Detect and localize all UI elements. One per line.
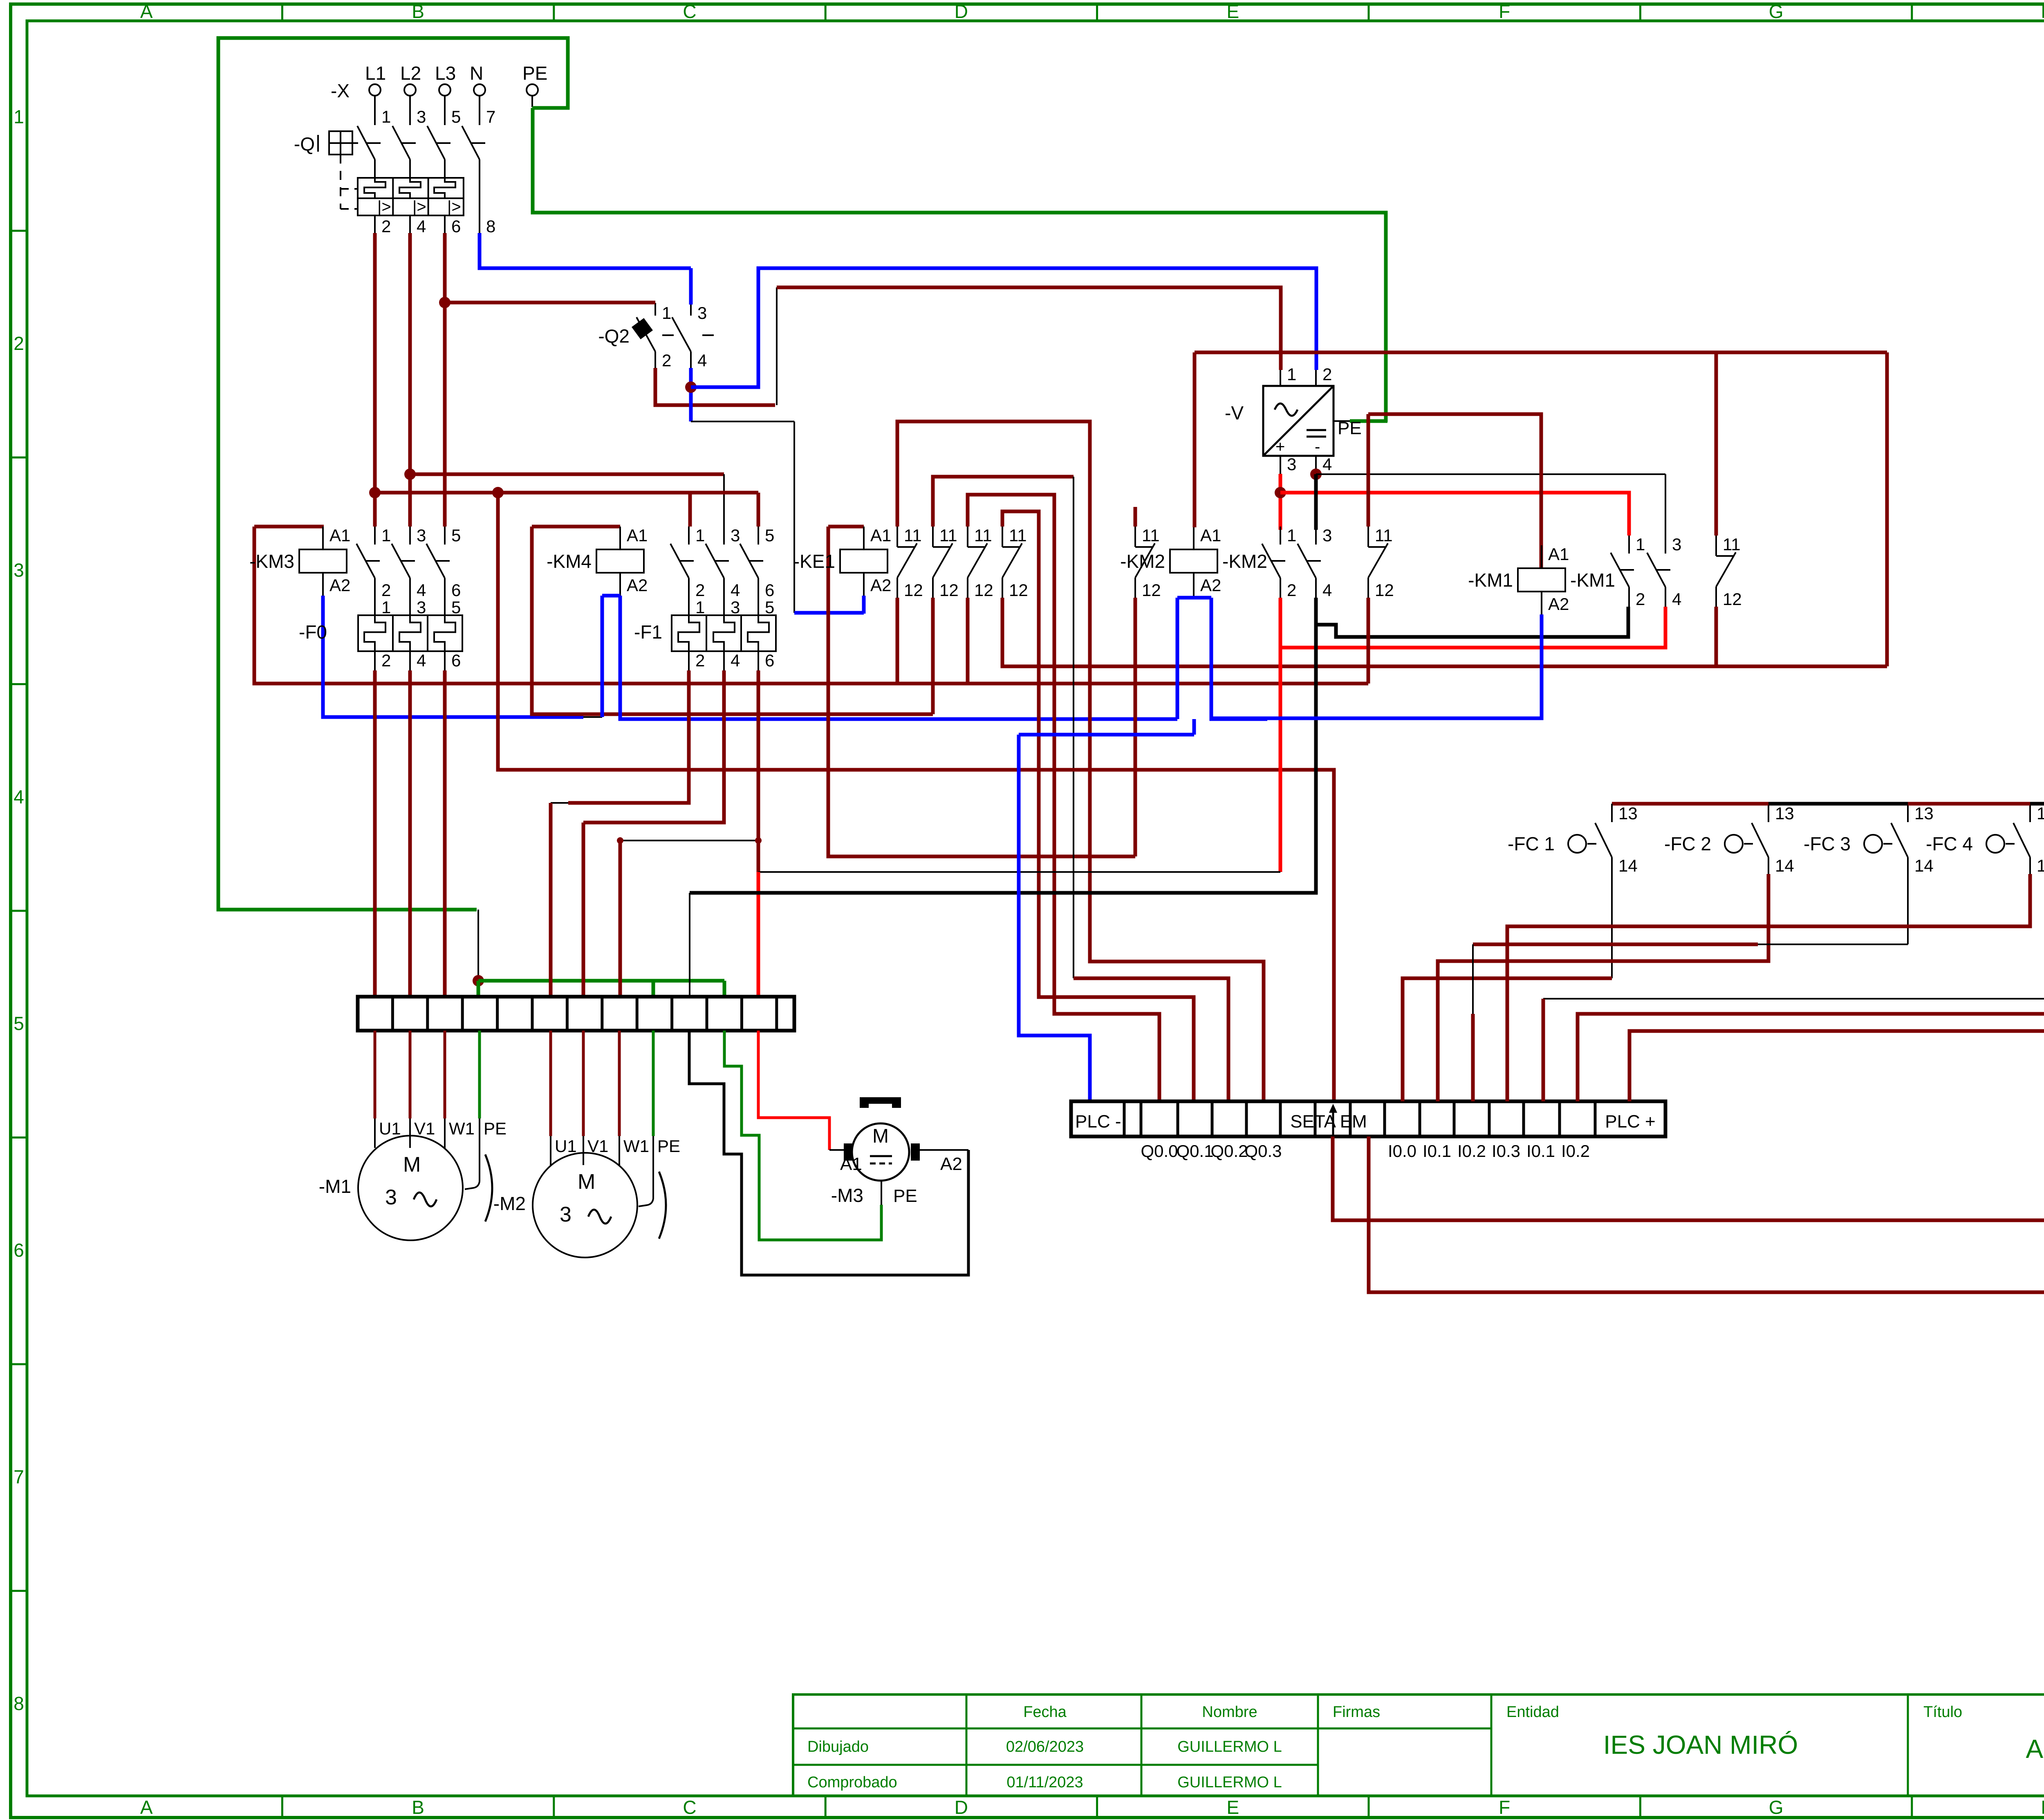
svg-text:A2: A2 xyxy=(870,576,891,595)
contact -KM2 NC 11-12 left xyxy=(1134,527,1136,547)
svg-text:H: H xyxy=(2041,1,2044,22)
wire -Q2 to -KE1 A2 xyxy=(691,421,794,422)
contact -KM4 1-2 xyxy=(688,527,690,545)
svg-text:Fecha: Fecha xyxy=(1023,1703,1067,1721)
wire -Q2 pole2 out to -V pin2 xyxy=(689,368,693,421)
wire M2 U1 feed xyxy=(568,670,689,803)
wire bus to PLC plus xyxy=(1629,804,2044,1101)
wire M2 W1 feed xyxy=(757,670,760,872)
svg-text:PE: PE xyxy=(657,1136,680,1156)
svg-text:-KM1: -KM1 xyxy=(1570,569,1615,591)
contact -KM4 5-6 xyxy=(758,527,759,545)
motor -M3 DC xyxy=(852,1123,909,1181)
svg-text:-KM4: -KM4 xyxy=(547,551,592,572)
svg-text:4: 4 xyxy=(697,351,707,370)
svg-text:A: A xyxy=(140,1,153,22)
circuit breaker -Q xyxy=(357,126,375,159)
wire KE1 contact4 12 to -KM1 NC 12 xyxy=(1002,598,1887,666)
svg-text:2: 2 xyxy=(13,333,24,354)
svg-text:2: 2 xyxy=(1287,581,1296,600)
svg-text:2: 2 xyxy=(662,351,671,370)
svg-text:I0.1: I0.1 xyxy=(1526,1141,1555,1161)
svg-text:6: 6 xyxy=(451,581,461,600)
wire SETA EM feed from L3 tap xyxy=(498,493,1334,1101)
svg-text:I0.1: I0.1 xyxy=(1423,1141,1451,1161)
svg-text:Q0.1: Q0.1 xyxy=(1176,1141,1213,1161)
svg-text:8: 8 xyxy=(13,1693,24,1714)
wire -KM3 A2 blue xyxy=(323,596,583,717)
svg-text:4: 4 xyxy=(1672,589,1681,609)
svg-text:G: G xyxy=(1769,1797,1784,1818)
svg-text:|>: |> xyxy=(377,198,391,216)
svg-text:-KM1: -KM1 xyxy=(1468,569,1513,591)
terminal strip X1 xyxy=(358,997,794,1031)
svg-text:5: 5 xyxy=(765,526,774,545)
wire -KM3 A1 loop xyxy=(254,525,324,529)
svg-text:I0.0: I0.0 xyxy=(1388,1141,1416,1161)
svg-text:4: 4 xyxy=(417,217,426,236)
wire PE green net xyxy=(218,38,568,910)
svg-text:13: 13 xyxy=(1775,804,1794,823)
svg-text:PLC +: PLC + xyxy=(1605,1112,1656,1132)
contact -KM3 5-6 xyxy=(444,527,446,545)
svg-text:14: 14 xyxy=(1618,856,1638,875)
contact -KE1 11-12 (3) xyxy=(967,527,968,547)
contactor coil -KM1 xyxy=(1518,568,1565,592)
svg-text:2: 2 xyxy=(381,651,391,670)
svg-text:12: 12 xyxy=(904,581,923,600)
title block xyxy=(793,1694,2044,1796)
wire -KM2 pole2 black link to -KM1 pole1 xyxy=(1316,607,1628,637)
svg-text:12: 12 xyxy=(974,581,993,600)
motor -M1 3-phase xyxy=(358,1136,463,1240)
svg-text:4: 4 xyxy=(1322,455,1332,474)
contact -KE1 11-12 (4) xyxy=(1002,527,1003,547)
svg-text:E: E xyxy=(1226,1797,1239,1818)
svg-text:A1: A1 xyxy=(1548,545,1569,564)
wire KE1 contact risers 12 xyxy=(896,598,899,684)
svg-text:|>: |> xyxy=(447,198,461,216)
svg-text:3: 3 xyxy=(560,1203,572,1226)
contact -KM3 3-4 xyxy=(409,527,411,545)
svg-text:Dibujado: Dibujado xyxy=(807,1738,869,1755)
svg-text:-FC 1: -FC 1 xyxy=(1508,833,1555,854)
wire -KM4 A2 blue xyxy=(602,594,620,598)
wires to motor M2 xyxy=(549,1031,552,1136)
wire 13 bus over switches xyxy=(1612,802,1768,806)
wire red bus to -KM1 pole1 xyxy=(1280,493,1629,536)
svg-text:01/11/2023: 01/11/2023 xyxy=(1006,1774,1083,1791)
svg-text:1: 1 xyxy=(662,303,671,323)
svg-text:3: 3 xyxy=(417,107,426,126)
wire M3 PE green xyxy=(881,1181,882,1205)
svg-text:-FC 2: -FC 2 xyxy=(1664,833,1711,854)
svg-text:I0.2: I0.2 xyxy=(1561,1141,1590,1161)
svg-text:W1: W1 xyxy=(449,1119,475,1138)
svg-text:Nombre: Nombre xyxy=(1202,1703,1257,1721)
contact -KM3 1-2 xyxy=(374,527,376,545)
wires to motor M1 xyxy=(374,1031,377,1118)
svg-text:Q0.3: Q0.3 xyxy=(1244,1141,1282,1161)
svg-text:IES JOAN MIRÓ: IES JOAN MIRÓ xyxy=(1603,1730,1798,1759)
wire M1 W1 feed xyxy=(443,670,447,997)
svg-text:W1: W1 xyxy=(623,1136,649,1156)
svg-text:14: 14 xyxy=(1775,856,1794,875)
svg-text:F: F xyxy=(1499,1,1510,22)
svg-text:12: 12 xyxy=(1009,581,1028,600)
wire -KM1 A1 loop xyxy=(1368,414,1541,568)
svg-text:11: 11 xyxy=(904,526,922,545)
svg-text:14: 14 xyxy=(1914,856,1934,875)
svg-text:11: 11 xyxy=(939,526,957,545)
wire M1 V1 feed xyxy=(408,670,412,997)
svg-text:5: 5 xyxy=(765,598,774,617)
svg-text:6: 6 xyxy=(451,651,461,670)
svg-text:3: 3 xyxy=(1287,455,1296,474)
svg-text:M: M xyxy=(578,1170,595,1194)
wire M2 V1 feed xyxy=(601,670,724,823)
wire PE junction to terminal strip xyxy=(477,910,479,981)
svg-text:3: 3 xyxy=(697,303,707,323)
svg-text:5: 5 xyxy=(451,598,461,617)
svg-text:G: G xyxy=(1769,1,1784,22)
wire M3 A1 red xyxy=(758,1031,829,1150)
wire -KM1 A2 blue xyxy=(1211,614,1542,718)
wire minus thin link to -KM1 pole2 xyxy=(1316,473,1665,475)
svg-text:11: 11 xyxy=(974,526,992,545)
svg-text:V1: V1 xyxy=(414,1119,435,1138)
svg-text:13: 13 xyxy=(1618,804,1638,823)
wire M3 A1 drop (red) xyxy=(757,872,760,997)
svg-text:2: 2 xyxy=(1322,365,1332,384)
svg-text:2: 2 xyxy=(695,651,705,670)
wire N blue to -Q2 xyxy=(480,233,691,268)
svg-text:A2: A2 xyxy=(627,576,648,595)
contactor coil -KM2 xyxy=(1170,549,1217,573)
svg-text:Q0.0: Q0.0 xyxy=(1141,1141,1178,1161)
svg-text:D: D xyxy=(955,1797,968,1818)
svg-text:U1: U1 xyxy=(379,1119,401,1138)
wire M1 U1 feed xyxy=(373,670,377,997)
svg-text:-KM3: -KM3 xyxy=(249,551,294,572)
svg-text:4: 4 xyxy=(731,651,740,670)
svg-text:3: 3 xyxy=(731,598,740,617)
contact -KM2 NC 11-12 at KM1 xyxy=(1367,527,1369,547)
wire KM2 A1 feed bus to KM1 NC 11 xyxy=(1193,352,1197,527)
wire -V minus output xyxy=(1310,468,1322,480)
svg-text:3: 3 xyxy=(385,1186,397,1209)
svg-text:-M1: -M1 xyxy=(319,1176,351,1197)
svg-text:5: 5 xyxy=(451,107,461,126)
svg-text:A1: A1 xyxy=(840,1154,862,1174)
contactor coil -KM3 xyxy=(299,549,347,573)
wire FC1 to I0.0 xyxy=(1611,857,1613,978)
svg-text:-F0: -F0 xyxy=(299,621,327,643)
contact -KM4 3-4 xyxy=(723,527,725,545)
svg-text:-KM2: -KM2 xyxy=(1222,551,1267,572)
svg-text:6: 6 xyxy=(765,581,774,600)
svg-text:3: 3 xyxy=(417,526,426,545)
svg-text:A1: A1 xyxy=(870,526,891,545)
svg-text:2: 2 xyxy=(1636,589,1645,609)
svg-text:PLC -: PLC - xyxy=(1075,1112,1121,1132)
wire L3 tap to -Q2 pole1 xyxy=(445,301,655,305)
svg-text:GUILLERMO L: GUILLERMO L xyxy=(1177,1738,1282,1755)
svg-text:11: 11 xyxy=(1009,526,1027,545)
svg-text:3: 3 xyxy=(1322,526,1332,545)
svg-text:11: 11 xyxy=(1375,526,1393,545)
svg-text:H: H xyxy=(2041,1797,2044,1818)
wire -KM2 A2 blue xyxy=(1193,577,1195,598)
svg-text:1: 1 xyxy=(381,598,391,617)
svg-text:8: 8 xyxy=(486,217,495,236)
svg-text:3: 3 xyxy=(417,598,426,617)
svg-text:Comprobado: Comprobado xyxy=(807,1774,897,1791)
wire L1 tap run to -KM4 pole1 xyxy=(375,491,690,495)
svg-text:PE: PE xyxy=(522,63,547,84)
svg-text:A2: A2 xyxy=(1200,576,1221,595)
svg-text:Q0.2: Q0.2 xyxy=(1210,1141,1248,1161)
svg-text:PE: PE xyxy=(893,1186,917,1206)
wire L2 column xyxy=(408,233,412,527)
svg-text:D: D xyxy=(955,1,968,22)
breaker -Q thermal/magnetic trip box xyxy=(358,178,464,215)
terminal strip PLC xyxy=(1071,1101,1665,1136)
wire S2 to I0.2b xyxy=(1578,874,2044,1101)
svg-text:11: 11 xyxy=(1723,535,1741,554)
svg-text:A2: A2 xyxy=(940,1154,962,1174)
svg-text:4: 4 xyxy=(417,581,426,600)
svg-text:E: E xyxy=(1226,1,1239,22)
contact -KE1 11-12 (2) xyxy=(932,527,934,547)
wire KM2 NC 12 to KE1 A1 loop xyxy=(1134,598,1137,856)
svg-text:-F1: -F1 xyxy=(634,621,662,643)
wire KE1 bracket 1 to Q0.3 xyxy=(897,421,1264,1101)
svg-text:3: 3 xyxy=(13,559,24,581)
svg-text:4: 4 xyxy=(13,786,24,807)
svg-text:L2: L2 xyxy=(400,63,421,84)
svg-text:1: 1 xyxy=(1287,526,1296,545)
svg-text:A: A xyxy=(140,1797,153,1818)
svg-text:4: 4 xyxy=(731,581,740,600)
wire KE1 bracket 4 to Q0.1 xyxy=(1002,511,1194,1101)
svg-text:3: 3 xyxy=(731,526,740,545)
svg-text:I0.3: I0.3 xyxy=(1492,1141,1520,1161)
wire black return bus xyxy=(690,598,1316,893)
svg-text:I0.2: I0.2 xyxy=(1457,1141,1486,1161)
svg-text:Entidad: Entidad xyxy=(1506,1703,1559,1721)
contact -KM1 3-4 xyxy=(1665,536,1666,554)
svg-text:7: 7 xyxy=(13,1466,24,1487)
wire KM4 pole3 top xyxy=(757,493,760,527)
svg-text:11: 11 xyxy=(1142,526,1160,545)
wire black link to M3 feed xyxy=(758,871,1280,873)
svg-text:13: 13 xyxy=(2037,804,2044,823)
svg-text:C: C xyxy=(683,1797,696,1818)
limit switch -FC 2 xyxy=(1768,804,1769,822)
svg-text:6: 6 xyxy=(13,1239,24,1261)
wire L1 column xyxy=(373,233,377,527)
wire M3 A2 loop black xyxy=(920,1149,968,1151)
svg-text:1: 1 xyxy=(695,526,705,545)
svg-text:A1: A1 xyxy=(627,526,648,545)
svg-text:A2: A2 xyxy=(1548,594,1569,614)
svg-text:-Q2: -Q2 xyxy=(598,325,630,347)
svg-text:1: 1 xyxy=(695,598,705,617)
wire FC3 to I0.2 xyxy=(1907,857,1909,944)
svg-text:2: 2 xyxy=(381,217,391,236)
wire N pole of -Q xyxy=(479,159,480,233)
svg-text:12: 12 xyxy=(1142,581,1161,600)
svg-text:1: 1 xyxy=(381,107,391,126)
SETA EM arrow xyxy=(1332,1111,1334,1136)
svg-text:-V: -V xyxy=(1225,402,1244,424)
svg-text:B: B xyxy=(412,1797,424,1818)
svg-text:2: 2 xyxy=(381,581,391,600)
wire -Q2 pole1 out to -V pin1 xyxy=(655,368,775,405)
power supply -V AC/DC xyxy=(1263,386,1334,456)
svg-text:-FC 3: -FC 3 xyxy=(1804,833,1851,854)
svg-text:-: - xyxy=(1315,438,1320,456)
svg-text:SETA EM: SETA EM xyxy=(1290,1112,1367,1132)
svg-text:14: 14 xyxy=(2037,856,2044,875)
svg-text:M: M xyxy=(403,1153,421,1177)
contactor coil -KM4 xyxy=(596,549,644,573)
frame column/row reference labels xyxy=(281,4,283,21)
contact -KE1 11-12 (1) xyxy=(896,527,898,547)
contact -KM2 3-4 xyxy=(1315,527,1317,545)
svg-text:-M2: -M2 xyxy=(493,1193,526,1214)
svg-text:-Q: -Q xyxy=(294,133,315,155)
contact -KM1 NC 11-12 xyxy=(1715,536,1717,556)
contactor coil -KE1 xyxy=(840,549,888,573)
svg-text:U1: U1 xyxy=(555,1136,577,1156)
svg-text:L3: L3 xyxy=(435,63,456,84)
wire L3 column xyxy=(443,233,447,527)
svg-text:5: 5 xyxy=(451,526,461,545)
svg-text:3: 3 xyxy=(1672,535,1681,554)
contact -KM1 1-2 xyxy=(1628,536,1630,554)
svg-text:N: N xyxy=(470,63,483,84)
svg-text:Firmas: Firmas xyxy=(1333,1703,1380,1721)
svg-text:6: 6 xyxy=(765,651,774,670)
svg-text:1: 1 xyxy=(1636,535,1645,554)
wire -KM2 NC 12 down to bus xyxy=(1367,598,1370,684)
svg-text:F: F xyxy=(1499,1797,1510,1818)
svg-text:12: 12 xyxy=(939,581,959,600)
svg-text:A1: A1 xyxy=(1200,526,1221,545)
wire KE1 bracket 2 to Q0.2 xyxy=(933,477,1074,527)
wire -V plus output (red) xyxy=(1279,474,1282,530)
svg-text:1: 1 xyxy=(1287,365,1296,384)
svg-text:A2: A2 xyxy=(329,576,350,595)
svg-text:GUILLERMO L: GUILLERMO L xyxy=(1177,1774,1282,1791)
svg-text:-X: -X xyxy=(331,80,350,101)
svg-text:4: 4 xyxy=(1322,581,1332,600)
limit switch -FC 1 xyxy=(1611,804,1613,822)
svg-text:AMASADORA: AMASADORA xyxy=(2026,1734,2044,1764)
svg-text:B: B xyxy=(412,1,424,22)
svg-text:M: M xyxy=(872,1125,889,1147)
wire FC4 to I0.3 xyxy=(1507,874,2030,1101)
svg-text:C: C xyxy=(683,1,696,22)
wire KM2 NC 11 stub xyxy=(1134,507,1137,527)
wire -KE1 A1 loop xyxy=(828,525,864,529)
wire FC2 to I0.1 xyxy=(1438,874,1768,1101)
svg-text:|>: |> xyxy=(412,198,426,216)
svg-text:A1: A1 xyxy=(329,526,350,545)
svg-text:2: 2 xyxy=(695,581,705,600)
svg-text:1: 1 xyxy=(13,106,24,127)
svg-text:-KM2: -KM2 xyxy=(1120,551,1165,572)
wire -KM2 pole1 down (red) xyxy=(1279,598,1282,872)
svg-text:6: 6 xyxy=(451,217,461,236)
svg-text:13: 13 xyxy=(1914,804,1934,823)
wire SETA EM right loop to S0 xyxy=(1369,874,2044,1292)
svg-text:7: 7 xyxy=(486,107,495,126)
svg-text:12: 12 xyxy=(1723,589,1742,609)
limit switch -FC 3 xyxy=(1907,804,1909,822)
svg-text:02/06/2023: 02/06/2023 xyxy=(1006,1738,1084,1755)
svg-text:-FC 4: -FC 4 xyxy=(1926,833,1973,854)
wire SETA EM left loop xyxy=(1333,804,2044,1220)
svg-text:L1: L1 xyxy=(365,63,386,84)
svg-text:-KE1: -KE1 xyxy=(793,551,835,572)
svg-text:12: 12 xyxy=(1375,581,1394,600)
svg-text:PE: PE xyxy=(1338,418,1362,438)
terminal strip -X L1 L2 L3 N PE xyxy=(369,84,381,96)
contact -KM2 1-2 xyxy=(1280,527,1281,545)
wire -KM4 A1 loop xyxy=(532,525,620,529)
wire KE1 bracket 3 to Q0.0 xyxy=(968,495,1159,1101)
svg-text:5: 5 xyxy=(13,1013,24,1034)
svg-text:-M3: -M3 xyxy=(831,1185,863,1206)
svg-text:Título: Título xyxy=(1923,1703,1962,1721)
svg-text:PE: PE xyxy=(484,1119,507,1138)
svg-text:+: + xyxy=(1275,438,1285,456)
svg-text:1: 1 xyxy=(381,526,391,545)
limit switch -FC 4 xyxy=(2029,804,2031,822)
wire L2 tap run to -KM4 pole2 xyxy=(410,473,724,476)
wire PE to -V xyxy=(533,108,1386,422)
svg-text:4: 4 xyxy=(417,651,426,670)
motor -M2 3-phase xyxy=(533,1153,637,1257)
